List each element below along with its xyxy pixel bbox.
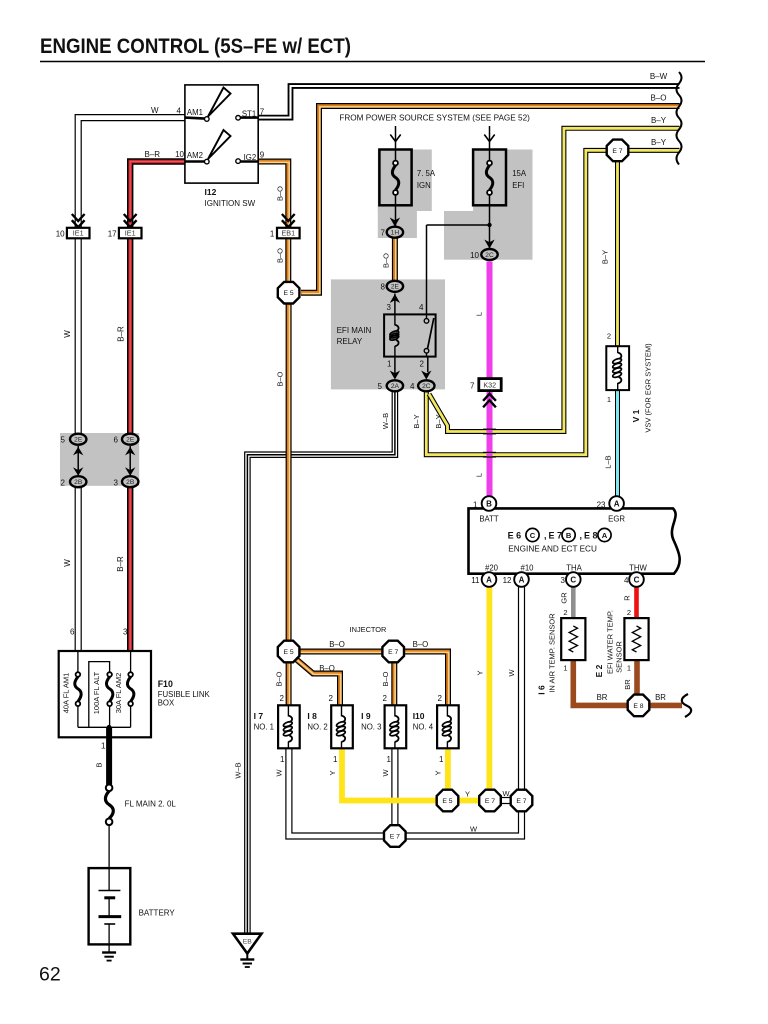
- junction dot at 15A fuse branch: [487, 223, 491, 227]
- svg-text:W: W: [470, 825, 478, 834]
- svg-text:I 7: I 7: [254, 711, 264, 721]
- wire Y from injector I8 pin 1 to junction E5: [342, 748, 438, 800]
- svg-text:4: 4: [624, 576, 629, 585]
- wire B-O from junction E5 diagonal to injector I8 pin 2: [297, 660, 341, 707]
- fusible link 100A FL ALT: [89, 662, 113, 728]
- svg-text:1: 1: [473, 501, 478, 510]
- wire from relay pin 2 to connector 2C: [421, 357, 431, 380]
- FL MAIN 2.0L fusible link: [105, 785, 113, 826]
- wire L (pink) from connector 2C to K32 to ECU BATT: [487, 262, 493, 500]
- page number: [39, 964, 61, 986]
- shaded area: 7.5A IGN fuse: [378, 150, 432, 239]
- svg-text:EFI MAIN: EFI MAIN: [337, 326, 372, 335]
- svg-text:THA: THA: [566, 564, 582, 573]
- svg-text:R: R: [623, 595, 632, 601]
- connector 5 2A: [387, 380, 403, 391]
- svg-text:SENSOR: SENSOR: [615, 641, 624, 673]
- svg-text:A: A: [486, 576, 492, 585]
- svg-text:E 7: E 7: [388, 649, 398, 656]
- connector pair 5 2E / 2 2B: [70, 434, 86, 488]
- fusible link 30A FL AM2: [127, 651, 133, 727]
- svg-text:B: B: [566, 531, 572, 540]
- svg-text:Y: Y: [328, 770, 337, 775]
- wire Y between junctions E5 and E7: [459, 798, 480, 804]
- battery ground: [102, 953, 116, 961]
- svg-text:IGN: IGN: [417, 181, 431, 190]
- svg-text:EGR: EGR: [608, 515, 625, 524]
- wire from relay pin 1 to connector 2A: [390, 357, 400, 380]
- air temp sensor I6 box: [561, 618, 585, 660]
- wire from power source to 15A EFI fuse: [484, 126, 494, 150]
- svg-text:30A FL AM2: 30A FL AM2: [114, 673, 123, 714]
- svg-text:100A FL ALT: 100A FL ALT: [92, 671, 101, 714]
- svg-text:2C: 2C: [485, 252, 494, 259]
- svg-text:10: 10: [56, 229, 65, 238]
- svg-text:2: 2: [438, 694, 443, 703]
- svg-text:10: 10: [175, 150, 184, 159]
- svg-text:W–B: W–B: [234, 762, 243, 778]
- svg-text:E 6: E 6: [508, 531, 522, 541]
- svg-text:AM2: AM2: [187, 151, 203, 160]
- svg-text:,: ,: [544, 531, 547, 541]
- svg-text:2E: 2E: [391, 284, 400, 291]
- svg-text:C: C: [570, 576, 576, 585]
- svg-text:9: 9: [260, 151, 265, 160]
- svg-text:2: 2: [627, 608, 631, 617]
- svg-text:I 6: I 6: [537, 685, 547, 695]
- wire W from injector I7 pin 1 along bottom to junction E7: [289, 748, 522, 836]
- svg-text:EFI: EFI: [512, 181, 524, 190]
- svg-text:I 9: I 9: [361, 711, 371, 721]
- injector I10 NO. 4: [437, 705, 459, 748]
- svg-text:E 7: E 7: [485, 798, 495, 805]
- svg-text:F10: F10: [158, 679, 173, 689]
- svg-text:2: 2: [563, 608, 567, 617]
- ECU pin 23 EGR: [609, 496, 624, 511]
- svg-text:BATTERY: BATTERY: [139, 909, 176, 918]
- svg-text:B–O: B–O: [319, 664, 335, 673]
- svg-text:B: B: [95, 762, 104, 767]
- svg-text:B–O: B–O: [276, 371, 285, 386]
- battery cells: [99, 891, 122, 953]
- wire GR from ECU THA pin 3 to air temp sensor: [571, 585, 576, 618]
- shaded area: EFI main relay: [331, 279, 445, 389]
- title: [40, 34, 351, 58]
- fusible link box F10: [59, 651, 151, 737]
- svg-text:GR: GR: [560, 592, 569, 604]
- VSV V1 box: [606, 346, 629, 390]
- svg-text:B: B: [486, 500, 492, 509]
- injector I7 NO. 1: [278, 705, 300, 748]
- junction E7 (top right): [607, 140, 629, 162]
- svg-text:E 7: E 7: [549, 531, 563, 541]
- svg-text:1: 1: [333, 755, 338, 764]
- svg-text:1H: 1H: [391, 230, 400, 237]
- svg-text:L: L: [475, 473, 484, 477]
- ECU name text: [508, 545, 597, 554]
- title underline: [40, 61, 705, 63]
- svg-text:BR: BR: [655, 693, 666, 702]
- svg-text:Y: Y: [434, 770, 443, 775]
- ECU internal label E6 C, E7 B, E8 A: [508, 528, 612, 541]
- svg-text:ENGINE CONTROL (5S–FE w/ ECT): ENGINE CONTROL (5S–FE w/ ECT): [40, 34, 351, 58]
- svg-text:W: W: [275, 769, 284, 777]
- VSV V1 coil: [612, 346, 622, 390]
- switch contact IG2: [236, 159, 258, 164]
- svg-text:IE1: IE1: [73, 229, 84, 238]
- svg-text:EB: EB: [243, 939, 253, 946]
- svg-text:NO. 1: NO. 1: [254, 723, 274, 732]
- svg-text:ENGINE AND ECT ECU: ENGINE AND ECT ECU: [508, 545, 597, 554]
- svg-text:62: 62: [39, 964, 61, 986]
- svg-text:2C: 2C: [422, 383, 431, 390]
- ECU pin 3 THA: [566, 572, 581, 587]
- svg-text:EFI WATER TEMP.: EFI WATER TEMP.: [606, 610, 615, 674]
- connector 7 K32: [479, 379, 501, 408]
- svg-text:1: 1: [607, 395, 611, 404]
- svg-text:15A: 15A: [512, 169, 527, 178]
- svg-text:IE1: IE1: [125, 229, 136, 238]
- wire W from ignition switch AM1 to fusible link box pin 6: [78, 118, 185, 651]
- svg-text:Y: Y: [475, 670, 484, 675]
- svg-text:B–O: B–O: [381, 671, 390, 686]
- svg-text:A: A: [614, 500, 620, 509]
- wire B-Y from junction E7 down to VSV pin 2: [615, 161, 620, 346]
- svg-text:RELAY: RELAY: [337, 337, 363, 346]
- svg-text:W: W: [507, 669, 516, 677]
- svg-text:1: 1: [563, 664, 567, 673]
- svg-text:E 5: E 5: [283, 290, 293, 297]
- svg-text:A: A: [602, 531, 608, 540]
- svg-text:B–W: B–W: [650, 72, 668, 81]
- wire W-B from EFI main relay pin 1 (2A) to ground EB: [247, 392, 395, 933]
- svg-text:BOX: BOX: [158, 699, 175, 708]
- page continuation squiggle at right bus ends: [677, 72, 682, 165]
- wire BR from junction E8 to right edge: [649, 703, 682, 709]
- svg-text:17: 17: [108, 229, 117, 238]
- svg-text:NO. 2: NO. 2: [307, 723, 327, 732]
- ignition switch I12 box: [185, 85, 258, 183]
- svg-text:7: 7: [381, 229, 386, 238]
- svg-text:NO. 4: NO. 4: [413, 723, 434, 732]
- svg-text:B–Y: B–Y: [651, 138, 667, 147]
- fusible link 40A FL AM1: [75, 651, 81, 727]
- wire BR from air temp sensor pin 1 to junction E8: [573, 660, 628, 705]
- junction E7 (lower W bus): [384, 825, 406, 847]
- fuse 7.5A IGN: [379, 150, 411, 206]
- F10 internal bus: [78, 725, 131, 730]
- svg-text:B–R: B–R: [145, 150, 161, 159]
- connector 1 EB1: [277, 214, 300, 238]
- svg-text:2: 2: [61, 479, 66, 488]
- svg-text:6: 6: [114, 436, 119, 445]
- svg-text:B–R: B–R: [117, 326, 126, 342]
- wire B-O from ignition switch IG2 to connector EB1 and junction E5: [258, 162, 289, 282]
- svg-text:INJECTOR: INJECTOR: [350, 625, 387, 634]
- svg-text:B–O: B–O: [650, 94, 666, 103]
- svg-text:3: 3: [387, 303, 392, 312]
- svg-text:2E: 2E: [74, 437, 83, 444]
- ECU box (ENGINE AND ECT ECU): [469, 508, 680, 573]
- wire B-O from junction E5 down to injector junction E5: [286, 305, 293, 641]
- svg-text:W–B: W–B: [381, 413, 390, 429]
- svg-text:I 8: I 8: [307, 711, 317, 721]
- svg-text:1: 1: [270, 229, 275, 238]
- switch contact ST1: [236, 116, 258, 121]
- svg-text:3: 3: [114, 479, 119, 488]
- fuse 15A EFI: [473, 150, 506, 206]
- svg-text:E 8: E 8: [633, 703, 643, 710]
- svg-text:2A: 2A: [391, 383, 400, 390]
- svg-text:7. 5A: 7. 5A: [417, 169, 436, 178]
- svg-text:FROM POWER SOURCE SYSTEM (SEE: FROM POWER SOURCE SYSTEM (SEE PAGE 52): [339, 114, 530, 123]
- ECU pin 4 THW: [629, 572, 644, 587]
- svg-text:AM1: AM1: [187, 108, 203, 117]
- wire B-O from junction E5 to injector I7 pin 2: [286, 663, 293, 706]
- svg-text:4: 4: [410, 382, 415, 391]
- svg-text:5: 5: [378, 382, 383, 391]
- wire from FL MAIN to battery: [108, 825, 110, 890]
- svg-text:7: 7: [260, 108, 265, 117]
- shaded area: 2E/2B connector block: [60, 433, 139, 486]
- svg-text:V 1: V 1: [631, 409, 641, 422]
- svg-text:Y: Y: [465, 790, 470, 799]
- connector 7 1H: [387, 227, 403, 238]
- svg-text:IN AIR TEMP. SENSOR: IN AIR TEMP. SENSOR: [548, 613, 557, 693]
- svg-text:40A FL AM1: 40A FL AM1: [62, 673, 71, 714]
- svg-text:B–Y: B–Y: [601, 250, 610, 264]
- svg-text:W: W: [381, 769, 390, 777]
- connector 10 IE1: [67, 214, 90, 238]
- connector 17 IE1: [119, 214, 142, 238]
- svg-text:B–O: B–O: [413, 640, 429, 649]
- connector 10 2C: [481, 249, 497, 260]
- svg-text:ST1: ST1: [242, 110, 256, 119]
- water temp sensor E2 box: [624, 618, 648, 660]
- wire W from ECU pin 12 (#10) down to junction E7: [518, 585, 525, 791]
- svg-text:12: 12: [503, 576, 512, 585]
- svg-text:FL MAIN 2. 0L: FL MAIN 2. 0L: [125, 800, 177, 809]
- svg-text:2: 2: [383, 694, 388, 703]
- wire B-O power source bus to junction E5: [301, 106, 680, 294]
- ground EB triangle: [233, 934, 262, 967]
- junction E5 (ignition feed): [278, 282, 300, 304]
- svg-text:E 7: E 7: [390, 833, 400, 840]
- svg-text:E 2: E 2: [594, 664, 604, 677]
- svg-text:E 8: E 8: [584, 531, 598, 541]
- svg-text:I10: I10: [413, 711, 425, 721]
- svg-text:IGNITION SW: IGNITION SW: [205, 199, 256, 208]
- svg-text:B–R: B–R: [116, 556, 125, 572]
- svg-text:K32: K32: [483, 380, 496, 389]
- svg-text:B–O: B–O: [276, 186, 285, 201]
- svg-text:B–O: B–O: [329, 640, 345, 649]
- svg-text:L–B: L–B: [604, 455, 613, 468]
- svg-text:THW: THW: [629, 564, 647, 573]
- svg-text:B–Y: B–Y: [434, 414, 443, 428]
- svg-text:E 7: E 7: [612, 148, 622, 155]
- svg-text:A: A: [519, 576, 525, 585]
- svg-text:IG2: IG2: [244, 153, 257, 162]
- injector I8 NO. 2: [331, 705, 353, 748]
- wire B-W from ignition switch ST1 to right edge bus: [258, 86, 680, 118]
- wire R from ECU THW pin 4 to water temp sensor: [634, 585, 639, 618]
- svg-text:2: 2: [329, 694, 334, 703]
- svg-text:B–O: B–O: [275, 671, 284, 686]
- wire Y from injector I10 pin 1 to junction E5: [445, 748, 451, 791]
- battery box: [89, 868, 131, 944]
- svg-text:4: 4: [177, 107, 182, 116]
- wire BR from water temp sensor pin 1 to junction E8: [634, 660, 640, 696]
- svg-text:5: 5: [61, 436, 66, 445]
- wire B-R from ignition switch AM2 to fusible link box pin 3: [130, 162, 185, 652]
- svg-text:E 5: E 5: [283, 649, 293, 656]
- svg-text:I12: I12: [205, 187, 217, 197]
- svg-text:3: 3: [561, 576, 566, 585]
- svg-text:B–Y: B–Y: [651, 116, 667, 125]
- svg-text:W: W: [151, 106, 159, 115]
- wire Y from ECU pin 11 (#20) to junction E7: [486, 585, 492, 791]
- wire W between junctions E7 and E7: [499, 797, 513, 804]
- svg-text:L: L: [475, 312, 484, 316]
- svg-text:B–Y: B–Y: [412, 414, 421, 428]
- svg-text:2B: 2B: [74, 479, 83, 486]
- wire from power source to 7.5A IGN fuse: [390, 126, 400, 150]
- ECU pin 11 #20: [482, 572, 497, 587]
- svg-text:2: 2: [420, 360, 425, 369]
- EFI main relay box: [384, 314, 436, 356]
- svg-text:#10: #10: [520, 564, 534, 573]
- svg-text:#20: #20: [485, 564, 499, 573]
- svg-text:W: W: [63, 330, 72, 338]
- svg-text:2: 2: [607, 332, 611, 341]
- wire from connector 2E to relay pin 3: [390, 294, 400, 315]
- svg-text:11: 11: [471, 576, 480, 585]
- svg-text:E 7: E 7: [516, 798, 526, 805]
- ECU pin 1 BATT: [482, 496, 497, 511]
- junction E7 (to ECU #20): [479, 790, 501, 812]
- svg-text:23: 23: [597, 501, 606, 510]
- svg-text:W: W: [502, 789, 510, 798]
- svg-text:1: 1: [627, 664, 631, 673]
- wire B thick from F10 to FL MAIN: [106, 727, 112, 784]
- svg-text:1: 1: [101, 742, 106, 751]
- svg-text:6: 6: [70, 628, 75, 637]
- wire crossing patch: [483, 429, 496, 457]
- svg-text:8: 8: [381, 283, 386, 292]
- connector 4 2C: [418, 380, 434, 391]
- svg-text:BATT: BATT: [479, 515, 499, 524]
- junction E5 (injector ground bus): [437, 790, 459, 812]
- svg-text:4: 4: [419, 303, 424, 312]
- svg-text:2: 2: [280, 694, 285, 703]
- svg-text:BR: BR: [623, 679, 632, 690]
- svg-text:,: ,: [580, 531, 583, 541]
- connector 8 2E: [387, 281, 403, 292]
- wire from 15A fuse to connector 2C: [484, 205, 494, 248]
- svg-text:2B: 2B: [126, 479, 135, 486]
- EFI main relay switch: [424, 314, 434, 356]
- svg-text:B–O: B–O: [276, 248, 285, 263]
- wire B-O from junction E7 to injector I9 pin 2: [391, 662, 398, 706]
- svg-text:B–O: B–O: [381, 253, 390, 268]
- svg-text:10: 10: [470, 251, 479, 260]
- wire L-B from VSV pin 1 to ECU EGR pin 23: [615, 390, 620, 499]
- svg-text:3: 3: [123, 628, 128, 637]
- svg-text:W: W: [63, 559, 72, 567]
- svg-text:1: 1: [280, 755, 285, 764]
- svg-text:VSV (FOR EGR SYSTEM): VSV (FOR EGR SYSTEM): [644, 343, 653, 433]
- junction E5 (injector bus): [278, 641, 300, 663]
- svg-text:1: 1: [439, 755, 444, 764]
- svg-text:C: C: [530, 531, 536, 540]
- injector I9 NO. 3: [385, 705, 407, 748]
- junction E7 (injector bus): [382, 641, 404, 663]
- ECU pin 12 #10: [514, 572, 529, 587]
- connector pair 6 2E / 3 2B: [122, 434, 138, 488]
- svg-text:EB1: EB1: [282, 229, 296, 238]
- EFI main relay coil: [389, 314, 399, 356]
- svg-text:2E: 2E: [126, 437, 135, 444]
- wire B-Y outer from relay 2C to top bus B-Y (lower): [426, 150, 679, 454]
- wire from 7.5A fuse to connector 1H: [390, 205, 400, 226]
- svg-text:C: C: [634, 576, 640, 585]
- svg-text:1: 1: [387, 755, 392, 764]
- wire W from injector I9 pin 1 to junction E7: [391, 748, 398, 828]
- wire B-O from connector 1H to connector 2E: [392, 237, 399, 281]
- junction E8: [628, 695, 650, 717]
- svg-text:E 5: E 5: [442, 798, 452, 805]
- svg-text:NO. 3: NO. 3: [361, 723, 381, 732]
- svg-text:BR: BR: [597, 693, 608, 702]
- switch contact AM1: [185, 88, 231, 122]
- svg-text:7: 7: [470, 382, 475, 391]
- wire branch from 15A fuse output to relay pin 4: [427, 225, 490, 314]
- junction E7 (to ECU #10): [511, 790, 533, 812]
- BR wire curly end: [682, 694, 691, 717]
- wire B-O injector bus E5 to E7 to injector I10 pin 2: [300, 652, 449, 707]
- wire B-Y inner from relay 2C diagonal to top bus B-Y (upper): [429, 128, 680, 431]
- svg-text:1: 1: [387, 360, 392, 369]
- shaded area: 15A EFI fuse: [444, 150, 533, 260]
- switch contact AM2: [185, 130, 231, 164]
